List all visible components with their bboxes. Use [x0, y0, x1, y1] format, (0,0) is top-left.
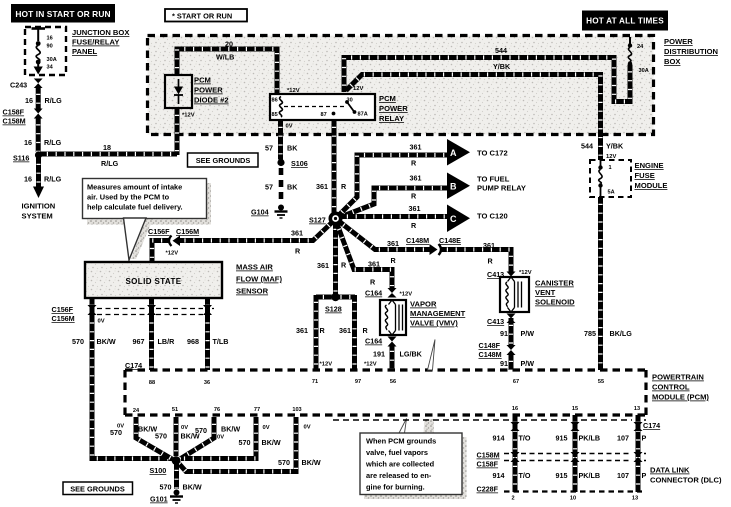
- fuse 24 30A (power distribution box): [628, 37, 649, 74]
- svg-text:C156F: C156F: [52, 305, 74, 314]
- label ENGINE FUSE MODULE: [635, 161, 668, 190]
- svg-text:C174: C174: [643, 421, 660, 430]
- svg-text:R/LG: R/LG: [44, 138, 62, 147]
- svg-text:85: 85: [272, 112, 278, 118]
- relay coil: [279, 97, 282, 118]
- svg-text:12V: 12V: [353, 86, 363, 92]
- svg-text:FUSE: FUSE: [635, 171, 655, 180]
- svg-text:51: 51: [172, 407, 178, 413]
- wire C158 to S116 (16 R/LG): [24, 118, 62, 153]
- svg-text:570: 570: [110, 428, 122, 437]
- connector C156F C156M (MAF harness): [52, 305, 215, 325]
- svg-text:34: 34: [47, 65, 54, 71]
- svg-text:MODULE (PCM): MODULE (PCM): [652, 393, 709, 402]
- svg-text:BK/W: BK/W: [302, 458, 321, 467]
- svg-text:S100: S100: [150, 466, 167, 475]
- svg-text:R/LG: R/LG: [44, 175, 62, 184]
- wire MAF pin1 to S100 (570 BK/W): [72, 298, 172, 459]
- engine fuse module dashed box: [590, 160, 631, 197]
- fuse 1 5A (engine fuse module): [598, 160, 614, 197]
- svg-text:16: 16: [24, 138, 32, 147]
- svg-text:BK/W: BK/W: [262, 438, 281, 447]
- wire VMV to PCM pin 56 (191 LG/BK): [373, 344, 423, 370]
- svg-text:24: 24: [133, 408, 140, 414]
- wire PCM pin 77 to S100 (570 BK/W): [181, 417, 281, 459]
- svg-text:570: 570: [239, 438, 251, 447]
- fuse value labels 16 90 30A 34: [47, 36, 57, 71]
- svg-text:16: 16: [24, 175, 32, 184]
- svg-text:FLOW (MAF): FLOW (MAF): [236, 275, 282, 284]
- svg-text:16: 16: [25, 96, 33, 105]
- wire S127 to arrow C (361 R): [340, 204, 448, 230]
- PCM top pin numbers: [149, 379, 604, 386]
- splice S128: [316, 293, 355, 314]
- splice S100: [150, 456, 181, 475]
- svg-text:SEE GROUNDS: SEE GROUNDS: [70, 485, 125, 494]
- svg-text:13: 13: [634, 406, 640, 412]
- wire 544 Y/BK into engine fuse module: [581, 142, 624, 161]
- svg-text:15: 15: [572, 406, 578, 412]
- svg-text:915: 915: [556, 434, 568, 443]
- svg-text:DATA LINK: DATA LINK: [650, 466, 690, 475]
- arrow C TO C120: [447, 205, 508, 233]
- svg-text:*12V: *12V: [400, 292, 413, 298]
- svg-text:570: 570: [160, 483, 172, 492]
- power distribution / relay dashed box: [148, 36, 654, 135]
- ground G104: [251, 205, 288, 219]
- svg-text:* START OR RUN: * START OR RUN: [172, 12, 232, 21]
- label PCM POWER RELAY: [379, 94, 408, 123]
- svg-text:gine for burning.: gine for burning.: [366, 483, 425, 492]
- vapor management valve VMV: [380, 300, 406, 335]
- svg-text:570: 570: [278, 458, 290, 467]
- label POWERTRAIN CONTROL MODULE (PCM): [652, 373, 709, 402]
- svg-text:MODULE: MODULE: [635, 181, 668, 190]
- wire Y/BK branch to engine fuse module: [346, 62, 601, 160]
- svg-text:57: 57: [265, 183, 273, 192]
- svg-text:ENGINE: ENGINE: [635, 161, 664, 170]
- wire S127 to MAF sensor (361 R): [152, 221, 334, 264]
- svg-text:Measures amount of intake: Measures amount of intake: [87, 183, 182, 192]
- svg-text:24: 24: [637, 44, 644, 50]
- wire engine fuse module to PCM pin 55 (785 BK/LG): [584, 197, 632, 370]
- svg-text:HOT IN START OR RUN: HOT IN START OR RUN: [15, 9, 110, 19]
- svg-text:help calculate fuel delivery.: help calculate fuel delivery.: [87, 203, 183, 212]
- label POWER DISTRIBUTION BOX: [664, 37, 718, 66]
- svg-text:BK/W: BK/W: [221, 425, 240, 434]
- fuse (junction box, 30A): [32, 29, 46, 75]
- svg-text:R: R: [391, 256, 397, 265]
- svg-text:C158F: C158F: [3, 108, 25, 117]
- svg-text:R/LG: R/LG: [45, 96, 63, 105]
- svg-text:107: 107: [617, 434, 629, 443]
- svg-text:87A: 87A: [358, 112, 368, 118]
- ground G101: [150, 490, 183, 504]
- svg-text:361: 361: [291, 229, 303, 238]
- svg-text:0V: 0V: [263, 425, 270, 431]
- svg-text:30A: 30A: [47, 57, 57, 63]
- splice S106: [277, 159, 307, 168]
- label VAPOR MANAGEMENT VALVE (VMV): [410, 300, 466, 328]
- svg-text:C164: C164: [365, 337, 382, 346]
- svg-text:90: 90: [47, 44, 53, 50]
- svg-text:R/LG: R/LG: [101, 159, 119, 168]
- callout: measures amount of intake air: [83, 179, 212, 261]
- wire S116 to ignition system arrow (16 R/LG): [24, 157, 62, 198]
- svg-text:361: 361: [296, 326, 308, 335]
- wire relay pin 85 to S106 (57 BK): [265, 120, 298, 160]
- svg-text:POWER: POWER: [194, 86, 223, 95]
- svg-text:C148M: C148M: [479, 350, 502, 359]
- svg-text:0V: 0V: [286, 124, 293, 130]
- wire C148M to PCM pin 67 (91 P/W): [500, 354, 534, 370]
- wire relay pin 87 to S127 (361 R): [316, 120, 347, 214]
- svg-text:*12V: *12V: [519, 270, 532, 276]
- svg-text:R: R: [411, 159, 417, 168]
- wire C148E to canister vent solenoid (361 R): [440, 241, 511, 272]
- PCM power relay U: box: [270, 94, 375, 120]
- wire S127 down to S128 (361 R): [317, 222, 347, 294]
- svg-text:C: C: [450, 214, 457, 224]
- svg-text:RELAY: RELAY: [379, 114, 404, 123]
- wire MAF pin3 to PCM pin 36 (968 T/LB): [187, 298, 228, 370]
- svg-text:R: R: [341, 261, 347, 270]
- svg-text:S128: S128: [325, 305, 342, 314]
- svg-text:56: 56: [390, 379, 396, 385]
- svg-text:C243: C243: [10, 81, 27, 90]
- svg-text:361: 361: [317, 261, 329, 270]
- svg-text:Y/BK: Y/BK: [493, 62, 511, 71]
- svg-text:CONTROL: CONTROL: [652, 383, 690, 392]
- wire PCM pin 15 to DLC pin 10 (915 PK/LB): [556, 415, 601, 492]
- svg-text:967: 967: [133, 337, 145, 346]
- label MASS AIR FLOW (MAF) SENSOR: [236, 263, 282, 296]
- svg-text:97: 97: [355, 379, 361, 385]
- canister vent solenoid: [500, 277, 529, 312]
- svg-text:10: 10: [570, 496, 576, 502]
- svg-text:DIODE #2: DIODE #2: [194, 96, 229, 105]
- svg-text:*12V: *12V: [364, 362, 377, 368]
- svg-text:VALVE (VMV): VALVE (VMV): [410, 319, 458, 328]
- svg-text:*12V: *12V: [320, 362, 333, 368]
- svg-text:16: 16: [512, 406, 518, 412]
- svg-text:SYSTEM: SYSTEM: [22, 212, 53, 221]
- wire 544 from fuse to relay pin 30: [344, 46, 630, 102]
- svg-text:SOLENOID: SOLENOID: [535, 298, 575, 307]
- svg-text:C174: C174: [125, 361, 142, 370]
- wire C413 to C148F (91 P/W): [500, 318, 534, 346]
- svg-text:55: 55: [598, 379, 604, 385]
- svg-text:BK/LG: BK/LG: [610, 329, 633, 338]
- label DATA LINK CONNECTOR (DLC): [650, 466, 722, 485]
- wire S128 right leg to PCM pin 97 (361 R): [339, 295, 377, 370]
- svg-text:W/LB: W/LB: [216, 53, 234, 62]
- svg-text:POWER: POWER: [379, 104, 408, 113]
- svg-text:BK/W: BK/W: [183, 483, 202, 492]
- svg-text:TO FUEL: TO FUEL: [477, 175, 510, 184]
- svg-text:PK/LB: PK/LB: [579, 434, 601, 443]
- svg-text:*12V: *12V: [166, 251, 179, 257]
- svg-text:B: B: [450, 182, 457, 192]
- wire PCM pin 103 to S100 (570 BK/W): [178, 417, 321, 472]
- svg-text:FUSE/RELAY: FUSE/RELAY: [72, 38, 119, 47]
- svg-text:LB/R: LB/R: [158, 337, 176, 346]
- svg-text:88: 88: [149, 380, 155, 386]
- label IGNITION SYSTEM: [22, 202, 56, 221]
- svg-text:valve, fuel vapors: valve, fuel vapors: [366, 448, 428, 457]
- svg-text:361: 361: [410, 174, 422, 183]
- svg-text:C164: C164: [365, 289, 382, 298]
- connector C228F (DLC): [477, 485, 643, 494]
- svg-text:86: 86: [272, 98, 278, 104]
- svg-text:914: 914: [493, 434, 505, 443]
- svg-text:361: 361: [483, 241, 495, 250]
- svg-text:BK/W: BK/W: [97, 337, 116, 346]
- wire PCM pin 51 to S100 (570 BK/W): [155, 417, 200, 456]
- svg-text:C228F: C228F: [477, 485, 499, 494]
- svg-text:R: R: [363, 326, 369, 335]
- PCM dashed box: [125, 370, 646, 415]
- svg-text:air. Used by the PCM to: air. Used by the PCM to: [87, 193, 170, 202]
- svg-text:PCM: PCM: [194, 76, 211, 85]
- svg-text:POWER: POWER: [664, 37, 693, 46]
- svg-text:P: P: [642, 434, 647, 443]
- svg-text:0V: 0V: [304, 425, 311, 431]
- svg-text:T/O: T/O: [519, 471, 531, 480]
- box SEE GROUNDS (lower): [63, 482, 133, 495]
- svg-text:CANISTER: CANISTER: [535, 279, 574, 288]
- svg-text:12V: 12V: [606, 154, 616, 160]
- svg-text:PUMP RELAY: PUMP RELAY: [477, 184, 526, 193]
- svg-text:C156M: C156M: [176, 227, 199, 236]
- svg-text:S116: S116: [13, 154, 29, 163]
- connector C174 (DLC row): [333, 420, 660, 430]
- svg-text:C148M: C148M: [406, 236, 429, 245]
- wire PCM pin 16 to DLC pin 2 (914 T/O): [493, 415, 531, 492]
- svg-text:R: R: [320, 326, 326, 335]
- wire S116 to PCM power diode (18 R/LG): [40, 143, 177, 168]
- wire S100 to G101 (570 BK/W): [160, 463, 202, 492]
- svg-text:JUNCTION BOX: JUNCTION BOX: [72, 28, 129, 37]
- svg-text:*12V: *12V: [182, 113, 195, 119]
- svg-text:5A: 5A: [608, 190, 615, 196]
- connector C148M C148E: [406, 236, 461, 255]
- svg-text:R: R: [488, 257, 494, 266]
- MAF sensor solid state box: [85, 262, 222, 298]
- label JUNCTION BOX FUSE/RELAY PANEL: [72, 28, 129, 56]
- svg-text:914: 914: [493, 471, 505, 480]
- svg-text:which are collected: which are collected: [365, 460, 435, 469]
- callout: when PCM grounds valve: [360, 340, 467, 500]
- svg-text:C148E: C148E: [439, 236, 461, 245]
- svg-text:36: 36: [204, 380, 210, 386]
- relay switch blade: [347, 102, 354, 112]
- svg-text:G101: G101: [150, 495, 168, 504]
- svg-text:785: 785: [584, 329, 596, 338]
- box SEE GROUNDS (upper): [188, 153, 259, 167]
- wire C243 to C158 (16 R/LG): [25, 87, 62, 109]
- svg-text:13: 13: [632, 496, 638, 502]
- svg-text:SEE GROUNDS: SEE GROUNDS: [196, 156, 251, 165]
- svg-text:PCM: PCM: [379, 94, 396, 103]
- svg-text:103: 103: [292, 407, 301, 413]
- svg-text:361: 361: [410, 143, 422, 152]
- svg-text:A: A: [450, 148, 457, 158]
- wire S127 to arrow A (361 R): [337, 143, 448, 218]
- svg-text:87: 87: [321, 112, 327, 118]
- svg-text:S127: S127: [309, 216, 326, 225]
- svg-text:915: 915: [556, 471, 568, 480]
- svg-text:MANAGEMENT: MANAGEMENT: [410, 309, 466, 318]
- svg-text:G104: G104: [251, 208, 269, 217]
- svg-text:R: R: [341, 182, 347, 191]
- svg-text:91: 91: [500, 359, 508, 368]
- splice S127 (hub): [309, 213, 341, 224]
- svg-text:R: R: [295, 247, 301, 256]
- svg-text:1: 1: [609, 165, 612, 171]
- relay pin 87A: [353, 110, 368, 117]
- connector C164 (bottom): [365, 337, 397, 347]
- header START OR RUN box: [165, 9, 247, 22]
- svg-text:30A: 30A: [639, 68, 649, 74]
- PCM power diode #2: [165, 75, 192, 108]
- svg-text:BK: BK: [287, 144, 298, 153]
- connector C148F C148M (inline): [479, 341, 516, 359]
- svg-text:76: 76: [214, 407, 220, 413]
- DLC wire labels row 2: [493, 471, 647, 480]
- svg-text:SOLID STATE: SOLID STATE: [125, 277, 181, 286]
- svg-text:Y/BK: Y/BK: [606, 142, 624, 151]
- svg-text:VAPOR: VAPOR: [410, 300, 437, 309]
- svg-text:T/O: T/O: [519, 434, 531, 443]
- svg-text:BOX: BOX: [664, 57, 680, 66]
- svg-text:SENSOR: SENSOR: [236, 287, 269, 296]
- svg-text:C158M: C158M: [477, 451, 500, 460]
- svg-text:PK/LB: PK/LB: [579, 471, 601, 480]
- wire S106 to G104 (57 BK dashed): [265, 168, 298, 203]
- svg-text:When PCM grounds: When PCM grounds: [366, 437, 436, 446]
- svg-text:77: 77: [254, 407, 260, 413]
- wire MAF pin2 to PCM pin 88 (967 LB/R): [133, 298, 176, 370]
- svg-text:0V: 0V: [98, 319, 105, 325]
- svg-text:C156F: C156F: [148, 227, 170, 236]
- svg-text:MASS AIR: MASS AIR: [236, 263, 273, 272]
- svg-text:361: 361: [409, 204, 421, 213]
- svg-text:R: R: [411, 221, 417, 230]
- wire PCM pin 13 to DLC pin 13 (107 P): [617, 415, 647, 492]
- relay actuation dashed line: [284, 106, 345, 108]
- wire S127 to C148M (361 R): [338, 221, 433, 266]
- svg-text:361: 361: [316, 182, 328, 191]
- connector C413 (top): [487, 270, 532, 279]
- wire PCM pin 24 to S100 (570 BK/W): [110, 417, 172, 459]
- DLC pin numbers: [511, 496, 638, 502]
- svg-text:DISTRIBUTION: DISTRIBUTION: [664, 47, 718, 56]
- svg-text:P/W: P/W: [521, 359, 535, 368]
- svg-text:PANEL: PANEL: [72, 47, 98, 56]
- svg-text:S106: S106: [291, 159, 308, 168]
- connector C164 (top): [365, 288, 412, 298]
- connector C158F C158M: [3, 108, 43, 126]
- svg-text:TO C172: TO C172: [477, 149, 508, 158]
- svg-text:570: 570: [195, 426, 207, 435]
- svg-text:0V: 0V: [181, 425, 188, 431]
- svg-text:C158M: C158M: [3, 117, 26, 126]
- arrow B TO FUEL PUMP RELAY: [447, 173, 526, 200]
- connector C413 (bottom): [487, 314, 516, 327]
- svg-text:HOT AT ALL TIMES: HOT AT ALL TIMES: [586, 17, 664, 26]
- wire S128 left leg to PCM pin 71 (361 R): [296, 295, 332, 370]
- svg-text:968: 968: [187, 337, 199, 346]
- svg-text:191: 191: [373, 350, 385, 359]
- svg-text:361: 361: [339, 326, 351, 335]
- relay pin 30: [345, 98, 353, 104]
- svg-text:57: 57: [265, 144, 273, 153]
- svg-text:IGNITION: IGNITION: [22, 202, 56, 211]
- svg-text:POWERTRAIN: POWERTRAIN: [652, 373, 704, 382]
- svg-text:LG/BK: LG/BK: [400, 350, 423, 359]
- connector C156F C156M (inline): [148, 227, 199, 257]
- wire S127 to VMV (361 R): [337, 223, 393, 289]
- PCM bottom pin numbers: [133, 406, 640, 414]
- label CANISTER VENT SOLENOID: [535, 279, 575, 307]
- connector C243: [10, 79, 43, 90]
- svg-text:CONNECTOR (DLC): CONNECTOR (DLC): [650, 476, 722, 485]
- svg-text:570: 570: [72, 337, 84, 346]
- svg-text:C158F: C158F: [477, 460, 499, 469]
- svg-text:2: 2: [511, 496, 514, 502]
- header HOT IN START OR RUN: [11, 4, 115, 23]
- svg-text:C148F: C148F: [479, 341, 501, 350]
- svg-text:20: 20: [225, 40, 233, 49]
- svg-text:C156M: C156M: [52, 314, 75, 323]
- svg-text:R: R: [411, 192, 417, 201]
- svg-text:T/LB: T/LB: [213, 337, 229, 346]
- header HOT AT ALL TIMES: [582, 11, 668, 31]
- svg-text:71: 71: [312, 379, 318, 385]
- svg-text:544: 544: [581, 142, 593, 151]
- svg-text:are released to en-: are released to en-: [366, 471, 432, 480]
- svg-text:361: 361: [368, 260, 380, 269]
- splice S116: [13, 151, 42, 162]
- wire S127 to arrow B (361 R): [338, 174, 448, 219]
- svg-text:TO C120: TO C120: [477, 212, 508, 221]
- junction box fuse/relay panel dashed box: [25, 27, 66, 75]
- svg-text:361: 361: [387, 239, 399, 248]
- svg-text:R: R: [370, 278, 376, 287]
- svg-text:P: P: [642, 471, 647, 480]
- svg-text:0V: 0V: [217, 435, 224, 441]
- svg-text:107: 107: [617, 471, 629, 480]
- svg-text:C413: C413: [487, 317, 504, 326]
- svg-text:BK: BK: [287, 183, 298, 192]
- arrow A TO C172: [447, 139, 508, 166]
- svg-text:544: 544: [495, 46, 507, 55]
- label PCM POWER DIODE #2: [194, 76, 229, 105]
- svg-text:P/W: P/W: [521, 329, 535, 338]
- svg-text:67: 67: [513, 379, 519, 385]
- svg-text:91: 91: [500, 329, 508, 338]
- svg-text:570: 570: [155, 432, 167, 441]
- svg-text:16: 16: [47, 36, 53, 42]
- connector C158M C158F (inline DLC): [477, 451, 647, 469]
- svg-text:18: 18: [103, 143, 111, 152]
- wire diode to S116 horizontal wire: [177, 108, 195, 155]
- wire 20 W/LB diode to relay pin 86: [177, 40, 300, 95]
- wire PCM pin 76 to S100 (570 BK/W): [180, 417, 240, 459]
- relay pin 87: [321, 112, 336, 118]
- svg-text:VENT: VENT: [535, 288, 556, 297]
